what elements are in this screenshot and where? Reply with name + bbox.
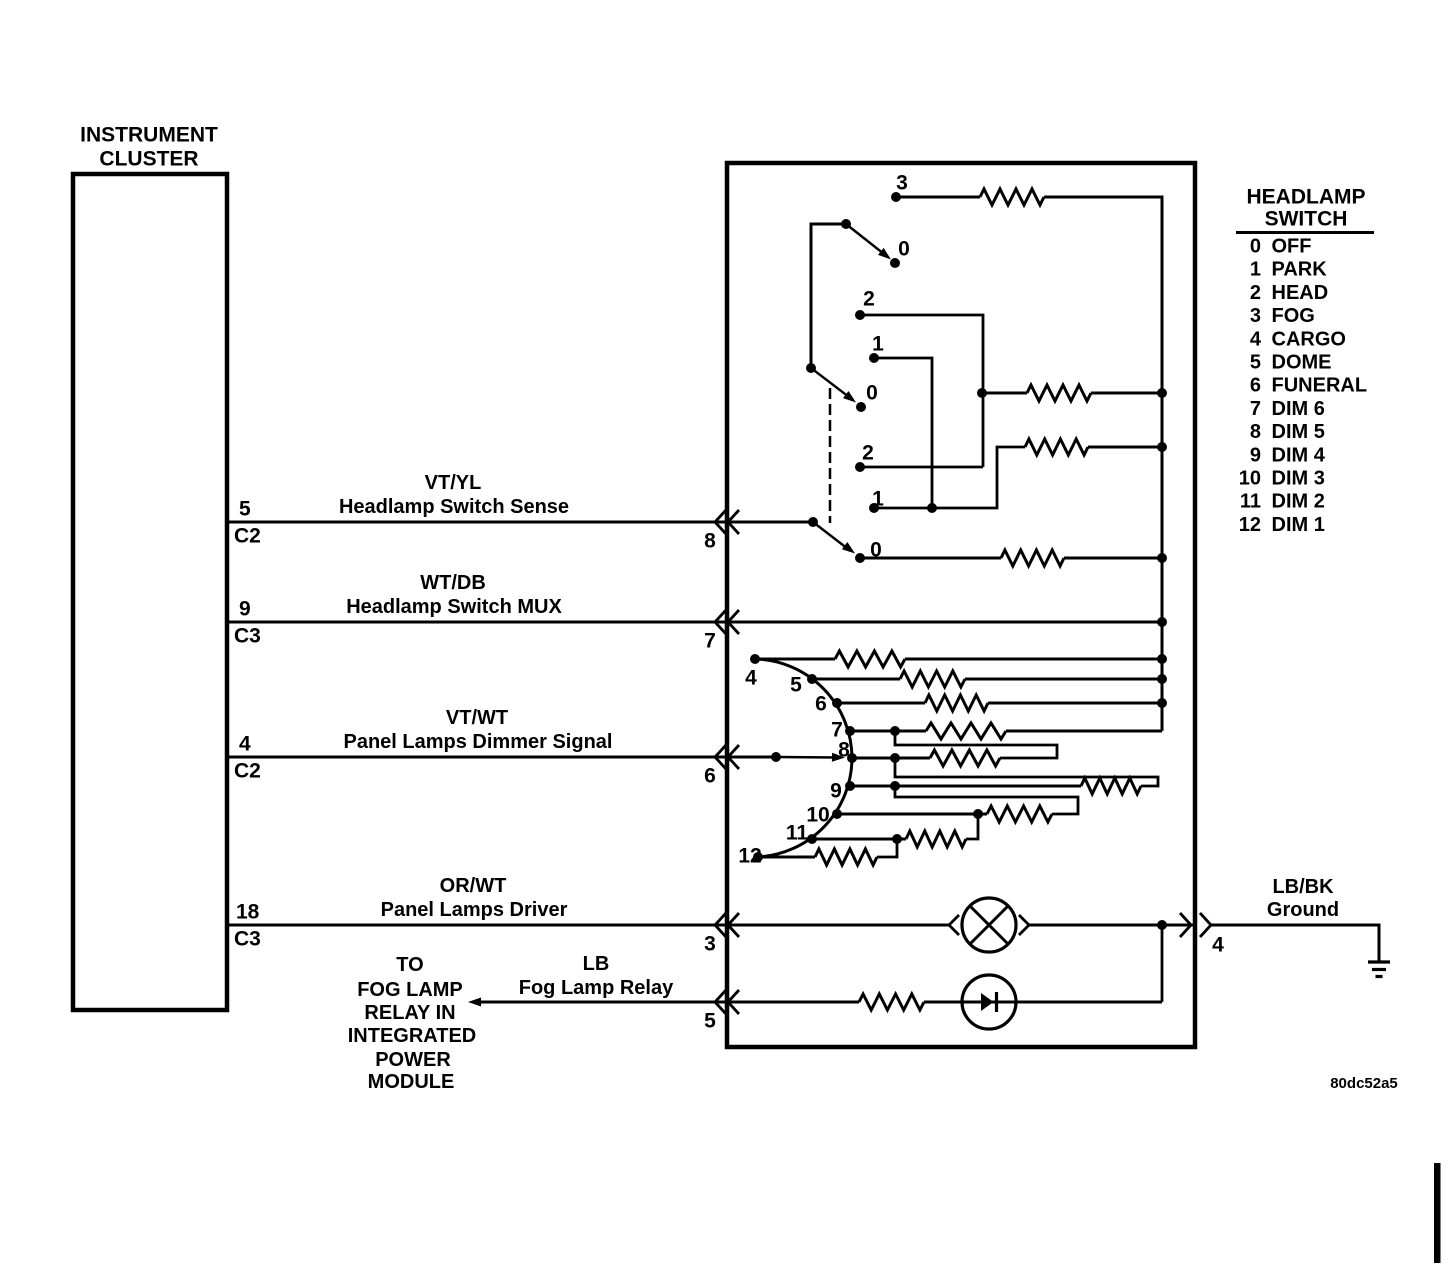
- wire contact 5 to resistor R-D5a: [812, 678, 900, 681]
- scan artifact bar: [1434, 1163, 1441, 1263]
- wire pin 8 to arm C pivot: [727, 521, 813, 524]
- wire R3 return to node 8: [895, 758, 1158, 786]
- wire contact 12 to resistor R6: [758, 856, 815, 859]
- pin label 8: [704, 529, 716, 552]
- pin label 4: [239, 732, 251, 755]
- connector chevrons pin 8: [715, 510, 739, 534]
- svg-text:5: 5: [239, 497, 251, 520]
- svg-text:VT/WT: VT/WT: [446, 707, 508, 729]
- wire VT/WT from instrument cluster pin 4 to switch pin 6: [227, 756, 727, 759]
- svg-text:Panel Lamps Dimmer Signal: Panel Lamps Dimmer Signal: [344, 731, 613, 753]
- wire contact 8 to resistor R2: [852, 757, 930, 760]
- wire R1 to right rail: [1006, 730, 1162, 733]
- label 6 (rheostat): [815, 692, 827, 715]
- svg-text:C2: C2: [234, 759, 261, 782]
- wire color label LB/BK: [1272, 876, 1334, 898]
- pin label 18: [236, 900, 260, 923]
- svg-text:HEADLAMP: HEADLAMP: [1247, 185, 1366, 208]
- node 1 contact (upper): [869, 353, 879, 363]
- node 2 contact (lower): [855, 462, 865, 472]
- ground G1: [1368, 962, 1390, 977]
- svg-text:80dc52a5: 80dc52a5: [1330, 1075, 1398, 1092]
- switch arm A pivot: [841, 219, 851, 229]
- junction right rail MUX: [1157, 617, 1167, 627]
- node 3 contact: [891, 192, 901, 202]
- wire contact 7 to resistor R1: [850, 730, 926, 733]
- svg-text:INSTRUMENT: INSTRUMENT: [80, 123, 218, 146]
- wire node 2 across and down: [860, 315, 983, 467]
- junction right rail row5: [1157, 674, 1167, 684]
- label 7 (rheostat): [831, 718, 843, 741]
- label 1 (upper): [872, 332, 884, 355]
- junction node 10: [973, 809, 983, 819]
- svg-text:FOG LAMP: FOG LAMP: [357, 979, 463, 1001]
- wire node 1 lower: [874, 507, 932, 510]
- resistor R-HEAD: [1027, 385, 1091, 401]
- svg-text:12: 12: [1239, 514, 1261, 536]
- wire arm A pivot to arm B pivot: [811, 224, 846, 368]
- switch arm A blade: [846, 224, 891, 260]
- svg-text:LB: LB: [583, 953, 610, 975]
- svg-text:18: 18: [236, 900, 260, 923]
- svg-text:DIM 3: DIM 3: [1272, 468, 1325, 490]
- svg-text:0: 0: [866, 381, 878, 404]
- wire contact 10 to resistor R4: [837, 813, 987, 816]
- junction node 7: [890, 726, 900, 736]
- svg-text:2: 2: [862, 441, 874, 464]
- svg-text:OR/WT: OR/WT: [440, 875, 507, 897]
- svg-text:Ground: Ground: [1267, 899, 1339, 921]
- wire color label LB: [583, 953, 610, 975]
- svg-text:POWER: POWER: [375, 1049, 451, 1071]
- wire R-D4a to right rail: [988, 702, 1162, 705]
- rheostat contact 11: [807, 834, 817, 844]
- label: INSTRUMENT CLUSTER: [80, 123, 218, 170]
- wire name label Headlamp Switch Sense: [339, 496, 569, 518]
- junction node 11: [892, 834, 902, 844]
- switch arm C pivot: [808, 517, 818, 527]
- wire diode junction riser: [1161, 925, 1164, 1002]
- wire R4 return to node 9: [895, 786, 1078, 814]
- label 0 (arm C): [870, 538, 882, 561]
- svg-text:HEAD: HEAD: [1272, 282, 1329, 304]
- label 5 (rheostat): [790, 673, 802, 696]
- svg-text:RELAY IN: RELAY IN: [364, 1002, 455, 1024]
- svg-text:C2: C2: [234, 524, 261, 547]
- svg-text:3: 3: [896, 171, 908, 194]
- resistor R-FOGRLY: [859, 994, 924, 1010]
- svg-text:C3: C3: [234, 624, 261, 647]
- svg-text:Fog Lamp Relay: Fog Lamp Relay: [519, 977, 674, 999]
- document code 80dc52a5: [1330, 1075, 1398, 1092]
- node 2 contact (upper): [855, 310, 865, 320]
- svg-text:1: 1: [872, 332, 884, 355]
- svg-text:0: 0: [1250, 236, 1261, 258]
- rheostat contact 4: [750, 654, 760, 664]
- svg-text:5: 5: [1250, 352, 1261, 374]
- label 3: [896, 171, 908, 194]
- legend title HEADLAMP SWITCH: [1236, 185, 1374, 232]
- connector chevrons pin 5: [715, 990, 739, 1014]
- wire LB to fog lamp relay: [476, 1001, 727, 1004]
- wire R6 return to node 11: [877, 839, 897, 857]
- svg-text:C3: C3: [234, 927, 261, 950]
- wire junction to resistor R-HEAD: [983, 392, 1027, 395]
- wire name label Panel Lamps Driver: [381, 899, 568, 921]
- wire R-D6a to right rail: [905, 658, 1162, 661]
- wiper arm to contact 8: [776, 753, 845, 762]
- resistor R2: [930, 750, 1000, 766]
- rheostat contact 6: [832, 698, 842, 708]
- switch arm C blade: [813, 522, 855, 554]
- resistor R4: [987, 806, 1052, 822]
- svg-text:CLUSTER: CLUSTER: [99, 147, 198, 170]
- svg-text:11: 11: [786, 821, 809, 844]
- junction right rail PARK: [1157, 442, 1167, 452]
- inline connector left of lamp: [949, 915, 959, 935]
- svg-text:1: 1: [1250, 259, 1261, 281]
- label 2 (lower): [862, 441, 874, 464]
- svg-text:10: 10: [806, 803, 829, 826]
- switch arm B pivot: [806, 363, 816, 373]
- label 12 (rheostat): [738, 844, 761, 867]
- label: TO FOG LAMP RELAY IN INTEGRATED POWER MODULE: [348, 954, 477, 1093]
- svg-text:9: 9: [239, 597, 251, 620]
- resistor R-OFF: [1001, 550, 1064, 566]
- connector chevrons pin 7: [715, 610, 739, 634]
- wire name label Ground: [1267, 899, 1339, 921]
- rheostat contact 10: [832, 809, 842, 819]
- wire R2 return to node 7: [895, 731, 1057, 758]
- wire lower 1 to resistor R-PARK: [932, 447, 1025, 508]
- wire OR/WT from instrument cluster pin 18 to switch pin 3: [227, 924, 727, 927]
- wire node 1 across and down: [874, 358, 932, 508]
- resistor R3: [1081, 778, 1141, 794]
- switch arm B contact 0: [856, 402, 866, 412]
- label 0 (arm A): [898, 237, 910, 260]
- wire R-D5a to right rail: [965, 678, 1162, 681]
- connector label C2: [234, 524, 261, 547]
- rheostat contact 5: [807, 674, 817, 684]
- resistor R5: [906, 831, 966, 847]
- wire R-OFF to right rail: [1064, 557, 1162, 560]
- rheostat contact 12: [753, 852, 763, 862]
- svg-text:CARGO: CARGO: [1272, 328, 1346, 350]
- junction lamp-diode: [1157, 920, 1167, 930]
- wire color label VT/WT: [446, 707, 508, 729]
- svg-text:VT/YL: VT/YL: [425, 472, 482, 494]
- connector label C3: [234, 927, 261, 950]
- node 1 contact (lower): [869, 503, 879, 513]
- arrowhead toward fog lamp relay: [468, 998, 481, 1007]
- svg-text:9: 9: [1250, 444, 1261, 466]
- svg-text:8: 8: [1250, 421, 1261, 443]
- connector chevrons pin 3: [715, 913, 739, 937]
- wire contact 4 to resistor R-D6a: [755, 658, 835, 661]
- svg-text:WT/DB: WT/DB: [420, 572, 486, 594]
- svg-text:Headlamp Switch MUX: Headlamp Switch MUX: [346, 596, 562, 618]
- rheostat wiper arc: [755, 659, 852, 857]
- junction right rail row4: [1157, 654, 1167, 664]
- svg-text:10: 10: [1239, 468, 1261, 490]
- label 0 (arm B): [866, 381, 878, 404]
- rheostat contact 8: [847, 753, 857, 763]
- svg-text:MODULE: MODULE: [368, 1071, 455, 1093]
- label 10 (rheostat): [806, 803, 829, 826]
- wire contact 11 to resistor R5: [812, 838, 906, 841]
- svg-text:DIM 5: DIM 5: [1272, 421, 1325, 443]
- wire color label OR/WT: [440, 875, 507, 897]
- pin label 5: [239, 497, 251, 520]
- wire R-PARK to right rail: [1088, 446, 1162, 449]
- svg-text:3: 3: [704, 932, 716, 955]
- svg-text:4: 4: [1250, 328, 1262, 350]
- wire R-HEAD to right rail: [1091, 392, 1162, 395]
- right rail wire: [1044, 197, 1162, 731]
- label 8 (rheostat): [838, 738, 850, 761]
- instrument cluster box: [73, 174, 227, 1010]
- wire R-FOGRLY to diode: [924, 1001, 1162, 1004]
- wire contact 9 to resistor R3: [850, 785, 1081, 788]
- pin label 6: [704, 764, 716, 787]
- svg-text:OFF: OFF: [1272, 236, 1312, 258]
- svg-text:DIM 1: DIM 1: [1272, 514, 1325, 536]
- resistor R-D5a: [900, 671, 965, 687]
- svg-text:6: 6: [1250, 375, 1261, 397]
- label 2 (upper): [863, 287, 875, 310]
- wire R5 return to node 10: [966, 814, 978, 839]
- svg-text:5: 5: [704, 1009, 716, 1032]
- wire pin 5 to resistor R-FOGRLY: [727, 1001, 859, 1004]
- mechanical link (dashed): [829, 388, 832, 523]
- svg-text:INTEGRATED: INTEGRATED: [348, 1025, 477, 1047]
- label 11 (rheostat): [786, 821, 809, 844]
- svg-text:FUNERAL: FUNERAL: [1272, 375, 1368, 397]
- svg-text:7: 7: [704, 629, 716, 652]
- wire arm C contact to resistor R-OFF: [860, 557, 1001, 560]
- wire color label WT/DB: [420, 572, 486, 594]
- wire lamp to pin 4: [1029, 924, 1195, 927]
- connector chevrons pin 6: [715, 745, 739, 769]
- switch arm C contact 0: [855, 553, 865, 563]
- wire node 2 lower: [860, 466, 983, 469]
- svg-text:11: 11: [1240, 491, 1261, 513]
- resistor R6: [815, 849, 877, 865]
- svg-text:0: 0: [898, 237, 910, 260]
- junction node 1 lower: [927, 503, 937, 513]
- connector label C3: [234, 624, 261, 647]
- label 1 (lower): [872, 487, 884, 510]
- svg-text:8: 8: [704, 529, 716, 552]
- svg-text:DOME: DOME: [1272, 352, 1332, 374]
- junction right rail HEAD: [1157, 388, 1167, 398]
- wire VT/YL from instrument cluster pin 5 to switch pin 8: [227, 521, 727, 524]
- junction node 8: [890, 753, 900, 763]
- pin label 3: [704, 932, 716, 955]
- headlamp switch box: [727, 163, 1195, 1047]
- svg-text:Headlamp Switch Sense: Headlamp Switch Sense: [339, 496, 569, 518]
- wire name label Fog Lamp Relay: [519, 977, 674, 999]
- svg-text:DIM 4: DIM 4: [1272, 444, 1326, 466]
- svg-text:7: 7: [1250, 398, 1261, 420]
- svg-text:6: 6: [704, 764, 716, 787]
- resistor R-D6a: [835, 651, 905, 667]
- svg-text:4: 4: [745, 666, 757, 689]
- svg-text:LB/BK: LB/BK: [1272, 876, 1334, 898]
- wire WT/DB from instrument cluster pin 9 to switch pin 7: [227, 621, 727, 624]
- wire color label VT/YL: [425, 472, 482, 494]
- wire contact 6 to resistor R-D4a: [837, 702, 925, 705]
- junction node 9: [890, 781, 900, 791]
- wire pin 6 to wiper: [727, 756, 776, 759]
- wire name label Headlamp Switch MUX: [346, 596, 562, 618]
- resistor R-D4a: [925, 695, 988, 711]
- svg-text:9: 9: [830, 779, 842, 802]
- wire node 3 to resistor: [896, 196, 980, 199]
- wiper pivot junction: [771, 752, 781, 762]
- resistor R-FOG: [980, 189, 1044, 205]
- pin label 9: [239, 597, 251, 620]
- svg-text:TO: TO: [396, 954, 423, 976]
- svg-text:4: 4: [1212, 933, 1224, 956]
- svg-text:Panel Lamps Driver: Panel Lamps Driver: [381, 899, 568, 921]
- svg-text:SWITCH: SWITCH: [1265, 207, 1348, 230]
- svg-text:4: 4: [239, 732, 251, 755]
- junction right rail row6: [1157, 698, 1167, 708]
- diode D1: [962, 975, 1016, 1029]
- svg-text:2: 2: [863, 287, 875, 310]
- legend positions list: [1239, 236, 1367, 536]
- svg-text:DIM 6: DIM 6: [1272, 398, 1325, 420]
- junction right rail OFF: [1157, 553, 1167, 563]
- wire pin 3 to lamp: [727, 924, 949, 927]
- connector label C2: [234, 759, 261, 782]
- svg-text:2: 2: [1250, 282, 1261, 304]
- switch arm A contact 0: [890, 258, 900, 268]
- wire name label Panel Lamps Dimmer Signal: [344, 731, 613, 753]
- wire pin 7 to right rail: [727, 621, 1162, 624]
- pin label 5: [704, 1009, 716, 1032]
- label 4 (rheostat): [745, 666, 757, 689]
- label 9 (rheostat): [830, 779, 842, 802]
- svg-text:DIM 2: DIM 2: [1272, 491, 1325, 513]
- inline connector right of lamp: [1019, 915, 1029, 935]
- connector chevrons pin 4: [1180, 913, 1211, 937]
- svg-text:5: 5: [790, 673, 802, 696]
- svg-text:FOG: FOG: [1272, 305, 1315, 327]
- junction node 2 rail: [977, 388, 987, 398]
- resistor R-PARK: [1025, 439, 1088, 455]
- pin label 4: [1212, 933, 1224, 956]
- cargo lamp L1: [962, 898, 1016, 952]
- svg-text:6: 6: [815, 692, 827, 715]
- rheostat contact 9: [845, 781, 855, 791]
- switch arm B blade: [811, 368, 856, 403]
- pin label 7: [704, 629, 716, 652]
- resistor R1: [926, 723, 1006, 739]
- svg-text:3: 3: [1250, 305, 1261, 327]
- svg-text:PARK: PARK: [1272, 259, 1328, 281]
- wire LB/BK to ground: [1211, 925, 1379, 961]
- rheostat contact 7: [845, 726, 855, 736]
